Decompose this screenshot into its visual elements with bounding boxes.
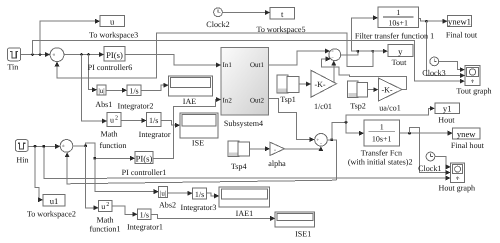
svg-text:(with initial states)2: (with initial states)2 bbox=[348, 157, 413, 166]
svg-text:Abs2: Abs2 bbox=[159, 201, 176, 210]
wire product out to Filter transfer function 1 bbox=[352, 18, 378, 51]
source Tsp2 bbox=[348, 81, 368, 111]
wire Abs1 to Integrator2 bbox=[106, 89, 126, 91]
To workspace3 block u bbox=[89, 16, 138, 40]
wire Hout feedback line to SumH bbox=[67, 153, 336, 184]
svg-text:IAE: IAE bbox=[183, 97, 197, 106]
svg-text:Filter transfer function 1: Filter transfer function 1 bbox=[355, 31, 434, 40]
svg-text:1/c01: 1/c01 bbox=[314, 102, 332, 111]
ynew1 block bbox=[446, 16, 478, 40]
Clock3 bbox=[422, 57, 445, 78]
wire Tout feedback to Sum1 bbox=[57, 33, 373, 78]
Filter transfer function 1 bbox=[355, 7, 434, 41]
sum Sum1 bbox=[50, 48, 64, 62]
wire Math function to Integrator bbox=[121, 119, 146, 121]
svg-text:Clock3: Clock3 bbox=[422, 69, 445, 78]
wire PI controller6 to In1 bbox=[125, 55, 220, 66]
svg-text:1/s: 1/s bbox=[129, 87, 138, 96]
To workspace2 block u1 bbox=[27, 194, 76, 218]
Integrator bbox=[139, 113, 171, 139]
y1 block Hout bbox=[435, 103, 460, 124]
wire Clock3 to Tout graph input1 bbox=[439, 62, 464, 70]
node junction Tin-a bbox=[31, 53, 34, 56]
wire Tin branch to To workspace3 bbox=[40, 21, 99, 54]
svg-text:Out1: Out1 bbox=[250, 61, 265, 69]
svg-text:alpha: alpha bbox=[268, 159, 286, 168]
wire Hin line to Hout graph input3 bbox=[44, 146, 450, 178]
svg-text:Hout: Hout bbox=[438, 115, 455, 124]
svg-text:In2: In2 bbox=[223, 97, 233, 105]
y block Tout bbox=[388, 44, 413, 67]
svg-text:-K-: -K- bbox=[314, 80, 325, 89]
wire error to Math function bbox=[82, 55, 107, 121]
product bbox=[329, 49, 341, 61]
svg-text:|u|: |u| bbox=[160, 190, 166, 198]
source Tsp4 bbox=[228, 141, 250, 171]
svg-text:Tsp1: Tsp1 bbox=[280, 95, 296, 104]
svg-text:ISE: ISE bbox=[192, 139, 204, 148]
svg-text:Integrator1: Integrator1 bbox=[127, 223, 163, 232]
svg-text:PI controller1: PI controller1 bbox=[122, 168, 167, 177]
wire Hin to To workspace2 bbox=[35, 146, 42, 200]
node junction hin-a bbox=[34, 145, 37, 148]
svg-text:10s+1: 10s+1 bbox=[388, 19, 408, 28]
node junction hin-b bbox=[42, 145, 45, 148]
wire error to Abs1 bbox=[89, 55, 97, 90]
Integrator3 bbox=[181, 188, 217, 212]
wire Math function1 to Integrator1 bbox=[112, 206, 137, 214]
wire Abs2 to Integrator3 bbox=[168, 192, 192, 194]
node junction tf1 out bbox=[425, 20, 428, 23]
svg-text:ynew: ynew bbox=[457, 129, 476, 139]
gain alpha bbox=[268, 142, 286, 168]
ynew block bbox=[451, 128, 485, 150]
svg-text:10s+1: 10s+1 bbox=[372, 135, 392, 144]
svg-text:1: 1 bbox=[380, 123, 384, 132]
svg-text:Abs1: Abs1 bbox=[95, 100, 112, 109]
wire PI controller1 to In2 bbox=[153, 100, 220, 159]
svg-text:Math: Math bbox=[100, 130, 117, 139]
svg-text:u: u bbox=[110, 17, 115, 27]
wire Clock1 to Hout graph input1 bbox=[435, 157, 450, 167]
wire tf1 out to Tout graph input2 bbox=[426, 21, 464, 75]
node junction sum2 out bbox=[330, 138, 333, 141]
svg-text:To workspace3: To workspace3 bbox=[89, 30, 138, 39]
svg-text:Subsystem4: Subsystem4 bbox=[224, 119, 263, 128]
Integrator1 bbox=[127, 209, 163, 232]
wire Sum1 to PI controller6 bbox=[64, 54, 104, 56]
source Tsp1 bbox=[277, 75, 299, 104]
wire Out1 to product input1 bbox=[269, 51, 330, 65]
To workspace5 block t bbox=[256, 8, 305, 34]
wire TF2 to ynew bbox=[400, 132, 453, 134]
svg-text:Integrator: Integrator bbox=[139, 130, 171, 139]
wire Integrator3 to IAE1 bbox=[207, 193, 219, 196]
wire tf2 out to Hout graph input2 bbox=[410, 128, 451, 173]
svg-text:1: 1 bbox=[396, 8, 400, 17]
wire Tsp1 to gain 1/c01 bbox=[299, 83, 310, 85]
svg-text:ua/co1: ua/co1 bbox=[379, 103, 401, 112]
Subsystem4 bbox=[221, 48, 269, 128]
scope Tout graph bbox=[456, 66, 491, 96]
wire Hin to SumH bbox=[28, 145, 59, 147]
wire Filter transfer function 1 to ynew1 bbox=[419, 19, 447, 22]
svg-text:y1: y1 bbox=[443, 104, 452, 114]
node junction tf2 out bbox=[408, 132, 411, 135]
svg-text:-: - bbox=[274, 147, 276, 153]
Integrator2 bbox=[118, 85, 154, 110]
svg-text:1/s: 1/s bbox=[149, 116, 158, 125]
Clock1 bbox=[418, 152, 441, 173]
svg-text:1/s: 1/s bbox=[195, 190, 204, 199]
wire Tin to Sum1 bbox=[21, 54, 50, 56]
svg-text:u1: u1 bbox=[50, 196, 59, 206]
display IAE1 bbox=[219, 187, 269, 218]
Math function u2 bbox=[100, 113, 127, 150]
svg-text:Final hout: Final hout bbox=[451, 141, 485, 150]
svg-text:function1: function1 bbox=[89, 224, 120, 233]
svg-text:ynew1: ynew1 bbox=[448, 17, 471, 27]
wire Out2 to Sum2 bbox=[269, 99, 315, 140]
svg-text:1/s: 1/s bbox=[140, 211, 149, 220]
wire product output to y Tout bbox=[341, 51, 387, 55]
svg-text:-K-: -K- bbox=[381, 86, 392, 95]
svg-text:Out2: Out2 bbox=[250, 97, 265, 105]
wire Clock2 to To workspace5 bbox=[223, 11, 270, 13]
svg-text:Tsp2: Tsp2 bbox=[350, 102, 366, 111]
svg-text:u: u bbox=[101, 202, 105, 211]
wire gain 1/c01 to product bottom input bbox=[334, 61, 337, 83]
svg-text:PI(s): PI(s) bbox=[106, 50, 123, 60]
svg-text:Clock2: Clock2 bbox=[206, 20, 229, 29]
wire Integrator to ISE bbox=[161, 120, 179, 125]
Abs2 bbox=[159, 187, 176, 210]
Math function1 u2 bbox=[89, 201, 120, 234]
svg-text:Transfer Fcn: Transfer Fcn bbox=[361, 149, 402, 158]
svg-text:To workspace2: To workspace2 bbox=[27, 210, 76, 219]
svg-text:function: function bbox=[100, 141, 127, 150]
svg-text:2: 2 bbox=[115, 116, 118, 122]
Abs1 bbox=[95, 85, 112, 109]
wire Integrator1 to ISE1 bbox=[151, 214, 274, 218]
svg-text:Tin: Tin bbox=[7, 63, 18, 72]
node junction sumh out bbox=[84, 145, 87, 148]
node junction error-b bbox=[87, 53, 90, 56]
svg-text:IAE1: IAE1 bbox=[236, 209, 254, 218]
svg-text:|u|: |u| bbox=[98, 87, 104, 95]
svg-text:Integrator3: Integrator3 bbox=[181, 203, 217, 212]
svg-text:ISE1: ISE1 bbox=[295, 229, 311, 238]
svg-text:Tout: Tout bbox=[392, 58, 407, 67]
svg-text:y: y bbox=[398, 46, 403, 56]
wire errH to Math function1 bbox=[86, 146, 98, 208]
svg-text:To workspace5: To workspace5 bbox=[256, 25, 305, 34]
gain ua/co1 bbox=[378, 78, 402, 112]
svg-text:Final tout: Final tout bbox=[446, 31, 478, 40]
PI controller6 bbox=[88, 46, 133, 72]
gain 1/c01 bbox=[311, 70, 337, 111]
PI controller1 bbox=[122, 152, 167, 177]
svg-text:2: 2 bbox=[106, 202, 109, 208]
svg-text:Integrator2: Integrator2 bbox=[118, 101, 154, 110]
wire Tsp4 to alpha bbox=[250, 148, 270, 150]
scope Hout graph bbox=[438, 163, 475, 192]
svg-text:PI(s): PI(s) bbox=[136, 154, 153, 164]
svg-text:PI controller6: PI controller6 bbox=[88, 63, 133, 72]
wire sum2 out riser to tf2 bbox=[332, 122, 364, 140]
node junction Tin line crossing y block line bbox=[371, 50, 374, 53]
wire Tsp2 to gain ua/co1 bbox=[367, 89, 378, 91]
wire gain ua/co1 output line bbox=[321, 59, 406, 90]
sum Sum2 bbox=[315, 134, 328, 147]
wire hout to y1 bbox=[346, 108, 434, 122]
step source Hin bbox=[16, 140, 29, 165]
wire Tin long line to Tout graph input3 bbox=[33, 41, 465, 81]
svg-text:Math: Math bbox=[96, 215, 113, 224]
wire errH to Abs2 bbox=[95, 158, 158, 191]
svg-text:Tout graph: Tout graph bbox=[456, 86, 491, 95]
svg-text:In1: In1 bbox=[223, 61, 233, 69]
step source Tin bbox=[7, 48, 20, 72]
svg-text:Hin: Hin bbox=[16, 155, 28, 164]
wire Sum2 output bbox=[327, 140, 336, 180]
Transfer Fcn with initial states 2 bbox=[348, 120, 413, 166]
wire SumH output bbox=[73, 143, 135, 159]
svg-text:Hout graph: Hout graph bbox=[438, 183, 475, 192]
svg-text:Tsp4: Tsp4 bbox=[231, 162, 247, 171]
display ISE1 bbox=[275, 212, 314, 238]
display ISE bbox=[180, 113, 218, 148]
sum SumH bbox=[60, 140, 73, 153]
wire alpha to Sum2 bottom bbox=[285, 147, 321, 149]
node junction product out tf1 bbox=[356, 50, 359, 53]
svg-text:u: u bbox=[110, 116, 114, 125]
node junction hout-115 bbox=[345, 121, 348, 124]
svg-text:Clock1: Clock1 bbox=[418, 164, 441, 173]
node junction errH-pi bbox=[93, 157, 96, 160]
wire Integrator2 to IAE bbox=[141, 85, 168, 90]
node junction Tin-b bbox=[39, 53, 42, 56]
Clock2 bbox=[206, 8, 229, 29]
display IAE bbox=[169, 76, 213, 106]
node junction error-a bbox=[80, 53, 83, 56]
